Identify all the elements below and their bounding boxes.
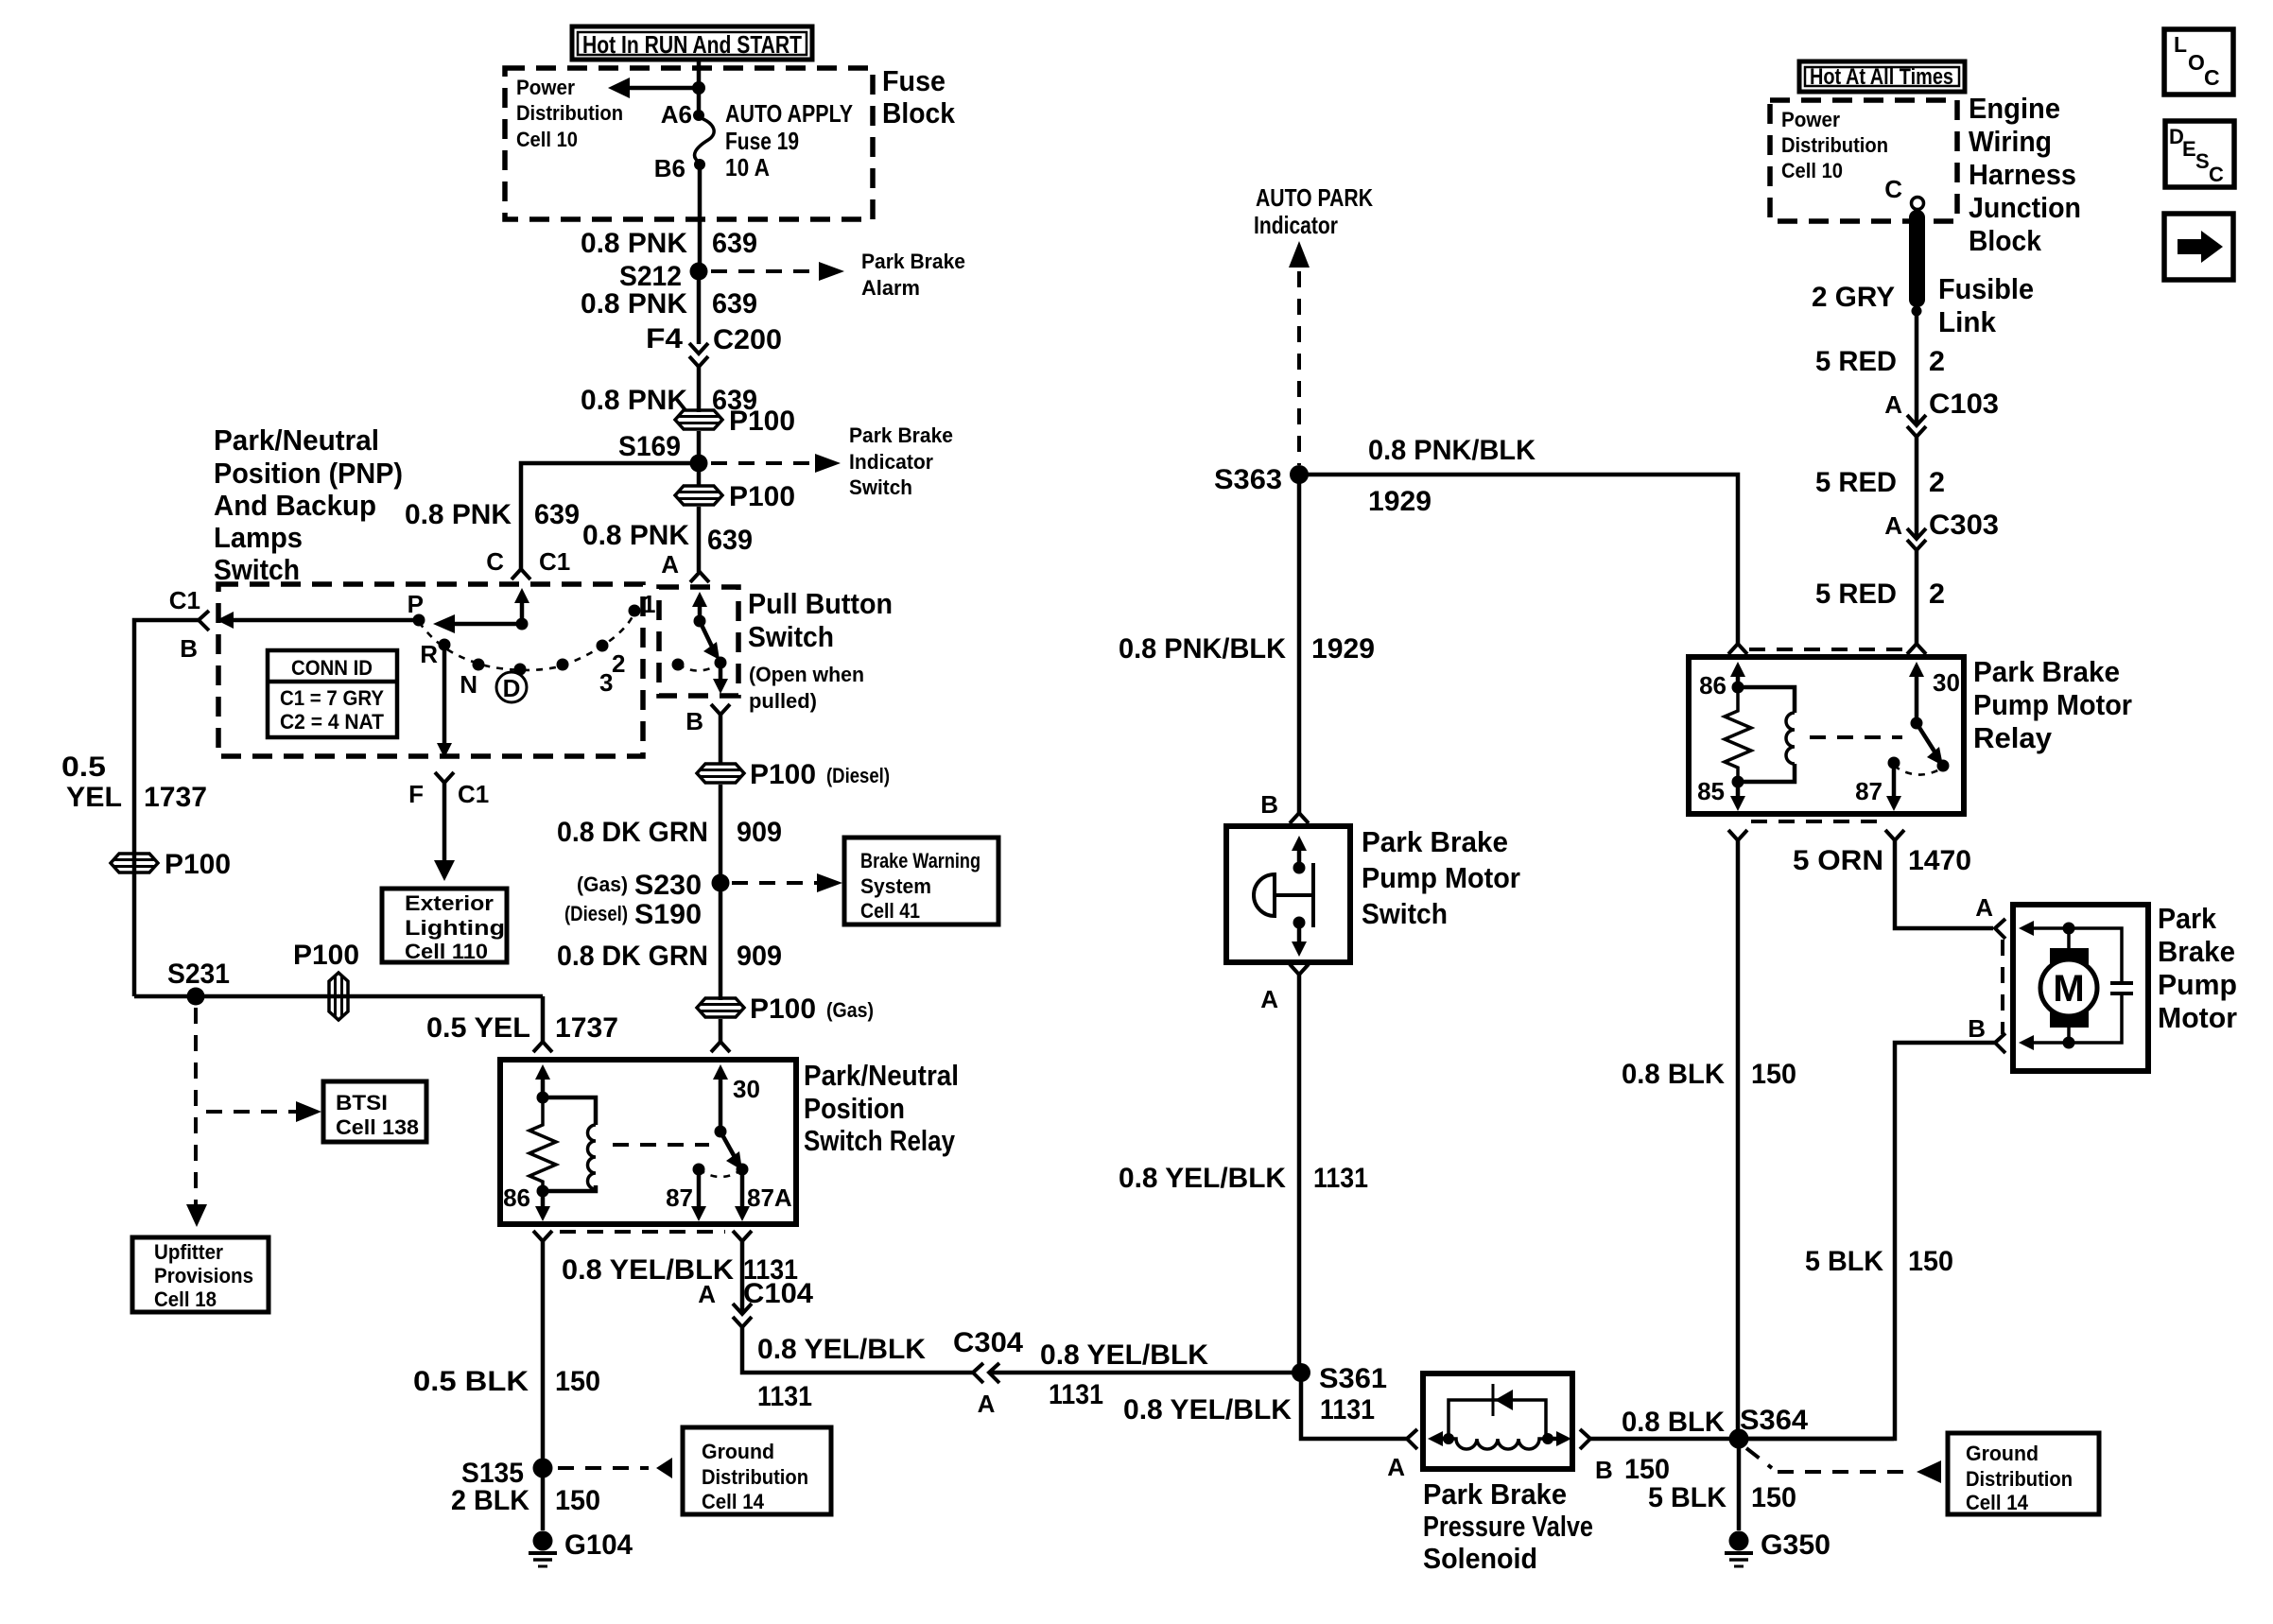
svg-text:C: C <box>486 547 504 576</box>
svg-text:150: 150 <box>1751 1482 1796 1513</box>
label 0.8 YEL/BLK 1131 right of C304 <box>1040 1339 1208 1410</box>
contact 2 <box>597 640 609 652</box>
svg-text:C1: C1 <box>458 780 489 808</box>
label 0.8 PNK 639 <box>581 228 757 259</box>
contact P <box>413 614 425 627</box>
pull button dashed arc <box>678 663 720 671</box>
svg-text:C: C <box>2204 65 2220 90</box>
pump switch plunger <box>1254 863 1313 927</box>
svg-text:C: C <box>1884 175 1902 203</box>
svg-text:5 RED: 5 RED <box>1815 579 1897 610</box>
svg-text:1929: 1929 <box>1311 633 1375 665</box>
relay coil <box>543 1097 596 1191</box>
svg-text:Pump Motor: Pump Motor <box>1973 688 2132 721</box>
relay coil top node right <box>1732 682 1744 694</box>
svg-text:C: C <box>2209 163 2224 186</box>
svg-text:0.8 YEL/BLK: 0.8 YEL/BLK <box>1040 1339 1208 1371</box>
fuse AUTO APPLY Fuse 19 10 A <box>693 99 853 181</box>
relay coil top node <box>537 1092 549 1104</box>
svg-text:C1: C1 <box>539 547 570 576</box>
park brake pump motor box <box>2013 905 2148 1071</box>
svg-text:0.8 PNK: 0.8 PNK <box>581 385 687 416</box>
svg-text:A: A <box>1975 893 1993 922</box>
svg-text:A6: A6 <box>661 100 692 129</box>
wire 150 relay to S135 <box>541 1241 546 1530</box>
pull button interior arrow <box>692 592 707 621</box>
pull button switch dashed box <box>659 587 738 696</box>
connector chevron relay 86 top <box>1728 644 1747 654</box>
dashed ref wire to park brake alarm <box>711 262 844 281</box>
svg-text:150: 150 <box>1908 1246 1953 1277</box>
svg-text:Link: Link <box>1938 305 1997 338</box>
svg-text:Cell 10: Cell 10 <box>1781 159 1843 182</box>
svg-text:Pressure Valve: Pressure Valve <box>1423 1510 1593 1543</box>
svg-text:Distribution: Distribution <box>516 101 623 125</box>
svg-text:S230: S230 <box>634 870 702 901</box>
relay resistor right <box>1725 687 1751 782</box>
svg-text:C2 = 4 NAT: C2 = 4 NAT <box>280 710 385 734</box>
svg-text:0.5: 0.5 <box>61 752 106 783</box>
svg-text:5 RED: 5 RED <box>1815 346 1897 377</box>
wire 1131 pump switch to S361 <box>1297 975 1302 1373</box>
svg-text:Distribution: Distribution <box>1966 1467 2073 1491</box>
svg-text:P: P <box>408 590 424 618</box>
wire pin B to P100 diesel <box>719 715 723 765</box>
solenoid diode bypass <box>1449 1384 1546 1439</box>
svg-text:A: A <box>1884 390 1902 419</box>
contact 1 <box>629 605 641 617</box>
node S135 <box>533 1459 553 1478</box>
relay coil bottom node right <box>1732 776 1744 788</box>
svg-text:1131: 1131 <box>1313 1163 1368 1194</box>
svg-text:Solenoid: Solenoid <box>1423 1542 1537 1575</box>
svg-text:2: 2 <box>1929 579 1945 610</box>
svg-text:System: System <box>860 874 931 898</box>
label 5 ORN 1470 <box>1793 845 1971 876</box>
node S361 <box>1292 1363 1310 1382</box>
node S212 <box>690 263 708 281</box>
svg-text:P100: P100 <box>750 993 816 1025</box>
svg-text:(Diesel): (Diesel) <box>564 902 628 925</box>
svg-text:AUTO PARK: AUTO PARK <box>1256 183 1373 212</box>
label 0.8 PNK/BLK 1929 <box>1119 633 1375 665</box>
svg-text:Park Brake: Park Brake <box>1423 1477 1567 1511</box>
svg-text:0.8 YEL/BLK: 0.8 YEL/BLK <box>757 1334 926 1365</box>
svg-text:R: R <box>420 640 438 668</box>
pin 87 interior arrow <box>691 1169 706 1221</box>
label 5 RED 2 <box>1815 346 1945 377</box>
motor interior B arrow <box>2019 1035 2069 1050</box>
svg-text:Wiring: Wiring <box>1969 125 2052 158</box>
svg-text:1131: 1131 <box>1320 1394 1375 1425</box>
svg-text:F4: F4 <box>646 323 683 354</box>
pull button exit arrow <box>713 663 728 694</box>
branch wire S169 to PNP pin C <box>521 463 699 569</box>
svg-text:0.5 BLK: 0.5 BLK <box>413 1366 529 1397</box>
svg-text:5 RED: 5 RED <box>1815 467 1897 498</box>
park brake pump motor label <box>2158 902 2237 1034</box>
pump switch bottom contact <box>1293 917 1306 929</box>
svg-text:N: N <box>460 670 477 699</box>
pin C interior arrow <box>514 588 529 624</box>
svg-text:Motor: Motor <box>2158 1001 2237 1034</box>
pin 30 interior arrow right relay <box>1909 662 1924 723</box>
svg-text:10 A: 10 A <box>725 153 770 181</box>
relay coil bottom node <box>537 1185 549 1198</box>
relay switch blade right <box>1917 723 1943 766</box>
relay actuation dashed link <box>613 1143 709 1147</box>
relay blade rest contact <box>1937 760 1950 772</box>
svg-text:0.8 PNK/BLK: 0.8 PNK/BLK <box>1368 435 1536 466</box>
node S169 <box>690 455 708 473</box>
label 0.5 BLK 150 <box>413 1366 600 1397</box>
wire 639 S212 to C200 <box>697 271 702 344</box>
svg-text:0.8 PNK: 0.8 PNK <box>582 520 689 551</box>
connector dashed tie below relay <box>560 1230 725 1234</box>
pin 87 interior arrow right relay <box>1886 763 1901 811</box>
svg-text:Provisions: Provisions <box>154 1264 253 1287</box>
svg-text:Engine: Engine <box>1969 92 2060 125</box>
svg-text:Brake: Brake <box>2158 935 2235 968</box>
svg-text:CONN ID: CONN ID <box>291 656 373 680</box>
pin 86 interior arrow <box>535 1191 550 1221</box>
wire 2 C303 to relay pin 30 <box>1915 550 1919 644</box>
wire 1929 S363 to junction block column <box>1299 475 1738 644</box>
svg-text:0.8 BLK: 0.8 BLK <box>1622 1059 1725 1090</box>
contact 87 <box>693 1164 705 1176</box>
svg-text:150: 150 <box>1751 1059 1796 1090</box>
connector C200 <box>689 343 708 367</box>
pull button blade <box>700 621 720 660</box>
label 5 RED 2 third <box>1815 579 1945 610</box>
label 0.8 YEL/BLK 1131 <box>1119 1163 1368 1194</box>
svg-text:Indicator: Indicator <box>1254 211 1338 239</box>
svg-text:A: A <box>698 1280 716 1308</box>
label 0.8 BLK 150 <box>1622 1059 1796 1090</box>
svg-text:C103: C103 <box>1929 389 1999 420</box>
label 0.5 YEL 1737 <box>61 752 207 813</box>
connector C304 <box>973 1363 999 1383</box>
label 5 BLK 150 <box>1805 1246 1953 1277</box>
svg-text:Pump: Pump <box>2158 968 2237 1001</box>
svg-text:Pump Motor: Pump Motor <box>1362 861 1520 894</box>
grommet P100 gas <box>697 993 874 1025</box>
svg-text:0.8 DK GRN: 0.8 DK GRN <box>557 941 708 972</box>
svg-text:2: 2 <box>1929 467 1945 498</box>
wire 1131 relay 87A to C104 <box>740 1241 745 1314</box>
svg-text:Alarm: Alarm <box>861 276 920 300</box>
PNP switch dashed box <box>218 584 643 756</box>
node at fuse feed <box>692 81 705 95</box>
svg-text:Junction: Junction <box>1969 191 2081 224</box>
svg-text:Switch: Switch <box>1362 897 1448 930</box>
svg-text:30: 30 <box>1933 668 1960 697</box>
svg-text:Position: Position <box>804 1092 905 1125</box>
label 0.8 PNK 639 right branch <box>582 520 753 556</box>
BTSI cell 138 box <box>323 1081 426 1142</box>
svg-text:E: E <box>2182 137 2196 161</box>
svg-text:0.8 PNK: 0.8 PNK <box>405 499 512 530</box>
svg-text:0.8 DK GRN: 0.8 DK GRN <box>557 817 708 848</box>
node S364 <box>1729 1429 1749 1449</box>
connector chevron pin B pull button <box>711 704 730 715</box>
svg-text:A: A <box>1387 1453 1405 1481</box>
svg-text:Pull Button: Pull Button <box>748 587 893 620</box>
svg-text:Block: Block <box>1969 224 2042 257</box>
connector dashed tie below right relay <box>1751 820 1883 823</box>
svg-text:S231: S231 <box>167 959 230 990</box>
grommet P100 inline <box>293 940 359 1020</box>
solenoid interior right arrow <box>1548 1431 1571 1446</box>
svg-text:YEL: YEL <box>66 782 122 813</box>
svg-text:Park Brake: Park Brake <box>849 423 953 447</box>
node S363 <box>1290 465 1309 484</box>
svg-text:B: B <box>1595 1456 1613 1484</box>
svg-text:Indicator: Indicator <box>849 450 933 474</box>
svg-text:639: 639 <box>712 288 757 320</box>
dashed ref from S231 down <box>194 1008 198 1208</box>
svg-text:Lighting: Lighting <box>405 916 505 940</box>
connector chevron pin B <box>199 611 209 631</box>
park brake pump motor relay box <box>1689 657 1964 814</box>
connector chevron below 87A <box>733 1231 752 1241</box>
grommet P100 <box>675 406 795 437</box>
svg-text:L: L <box>2174 32 2187 57</box>
svg-text:D: D <box>503 674 521 702</box>
CONN ID box <box>268 650 397 737</box>
connector chevron pump switch B <box>1290 813 1309 823</box>
svg-text:Cell 41: Cell 41 <box>860 899 920 923</box>
arrow to upfitter provisions <box>186 1204 207 1227</box>
hot at all times box <box>1799 61 1965 92</box>
wire 2 C103 to C303 <box>1915 437 1919 539</box>
power distribution cell 10 dashed box right <box>1770 100 1957 221</box>
svg-text:S190: S190 <box>634 899 702 930</box>
svg-text:C304: C304 <box>953 1327 1023 1358</box>
svg-text:2 GRY: 2 GRY <box>1812 282 1895 313</box>
label 0.5 YEL 1737 at relay <box>426 1012 618 1044</box>
upfitter provisions cell 18 box <box>132 1237 269 1312</box>
grommet P100 diesel <box>697 759 890 790</box>
svg-text:Distribution: Distribution <box>702 1465 808 1489</box>
connector chevron relay 30 top <box>1907 644 1926 654</box>
power distribution cell 10 label <box>516 76 623 151</box>
connector chevron relay pin 30 <box>711 1042 730 1052</box>
wire 1131 C104 to C304 <box>742 1327 973 1373</box>
dashed ref to BTSI <box>206 1101 321 1122</box>
svg-text:150: 150 <box>555 1366 600 1397</box>
label 5 RED 2 second <box>1815 467 1945 498</box>
wire 0.8 BLK solenoid B to S364 <box>1590 1437 1894 1442</box>
ground G104 <box>529 1529 633 1566</box>
relay resistor <box>529 1097 556 1191</box>
connector chevron below 87 <box>1885 830 1904 840</box>
label 0.8 DK GRN 909 above <box>557 817 782 848</box>
svg-text:86: 86 <box>503 1183 530 1212</box>
svg-text:S: S <box>2195 149 2210 173</box>
svg-text:Park/Neutral: Park/Neutral <box>214 423 379 457</box>
svg-text:Fuse 19: Fuse 19 <box>725 127 799 155</box>
wire from hot box into fuse block <box>697 60 702 112</box>
pull button lower contact <box>715 657 727 669</box>
connector C303 <box>1907 528 1926 550</box>
svg-text:Park Brake: Park Brake <box>861 250 965 273</box>
contact 3 <box>557 659 569 671</box>
svg-text:(Diesel): (Diesel) <box>826 764 890 787</box>
svg-text:C200: C200 <box>713 324 782 355</box>
svg-text:Cell 18: Cell 18 <box>154 1287 217 1311</box>
svg-text:And Backup: And Backup <box>214 489 376 522</box>
arrow to power distribution <box>608 78 699 98</box>
svg-text:0.8 BLK: 0.8 BLK <box>1622 1407 1725 1438</box>
selector dashed arc <box>419 613 634 670</box>
svg-text:Power: Power <box>1781 108 1840 131</box>
Hot In RUN And START box <box>572 26 812 60</box>
ground distribution cell 14 box left <box>683 1427 831 1514</box>
svg-text:5 BLK: 5 BLK <box>1805 1246 1883 1277</box>
svg-text:5 ORN: 5 ORN <box>1793 845 1883 876</box>
pull button switch label <box>748 587 893 653</box>
svg-text:1: 1 <box>642 590 655 618</box>
svg-text:Hot At All Times: Hot At All Times <box>1810 64 1953 90</box>
svg-text:Park Brake: Park Brake <box>1973 655 2120 688</box>
svg-text:S361: S361 <box>1319 1363 1387 1394</box>
wire P100 gas to relay pin 30 <box>719 1019 723 1042</box>
svg-text:P100: P100 <box>729 406 795 437</box>
svg-text:150: 150 <box>1624 1454 1670 1485</box>
svg-text:Switch: Switch <box>849 475 912 499</box>
wire S361 to solenoid A <box>1301 1373 1407 1439</box>
svg-text:909: 909 <box>737 941 782 972</box>
wire F to exterior lighting <box>434 783 455 881</box>
connector chevron below 86 <box>533 1231 552 1241</box>
forward arrow box <box>2164 214 2233 280</box>
svg-text:G350: G350 <box>1761 1529 1831 1561</box>
park brake pump motor switch box <box>1226 826 1350 962</box>
connector chevron solenoid B <box>1580 1429 1590 1449</box>
label 0.8 BLK 150 <box>1622 1407 1725 1485</box>
label 2 BLK 150 <box>451 1485 600 1516</box>
svg-text:1737: 1737 <box>555 1012 618 1044</box>
svg-text:P100: P100 <box>293 940 359 971</box>
power distribution cell 10 label right <box>1781 108 1888 182</box>
svg-text:(Gas): (Gas) <box>826 998 874 1022</box>
wire S231 horizontal <box>134 994 543 999</box>
svg-text:639: 639 <box>712 228 757 259</box>
svg-text:Park/Neutral: Park/Neutral <box>804 1059 959 1092</box>
svg-text:AUTO APPLY: AUTO APPLY <box>725 99 853 128</box>
dashed ref S364 to ground distribution <box>1746 1448 1941 1483</box>
svg-text:A: A <box>1884 511 1902 540</box>
switch common node <box>516 618 529 631</box>
pull button top contact <box>694 615 706 628</box>
svg-text:Distribution: Distribution <box>1781 133 1888 157</box>
svg-text:C1 = 7 GRY: C1 = 7 GRY <box>280 686 384 710</box>
svg-text:A: A <box>1260 985 1278 1013</box>
svg-text:Cell 10: Cell 10 <box>516 128 578 151</box>
contact dashed arc <box>699 1169 742 1177</box>
svg-text:Cell 14: Cell 14 <box>702 1490 765 1513</box>
svg-text:(Open when: (Open when <box>749 663 864 686</box>
switch arm to P contact <box>433 614 522 633</box>
svg-text:Ground: Ground <box>702 1440 774 1463</box>
connector chevron pin F <box>435 772 454 783</box>
label 5 BLK 150 lower <box>1648 1482 1796 1513</box>
svg-text:Position (PNP): Position (PNP) <box>214 457 403 490</box>
svg-text:1737: 1737 <box>144 782 207 813</box>
dashed ref to brake warning system <box>732 873 842 892</box>
svg-text:Upfitter: Upfitter <box>154 1240 223 1264</box>
park brake pump motor relay label <box>1973 655 2132 754</box>
svg-text:P100: P100 <box>729 481 795 512</box>
wire 5 ORN pin 87 to motor A <box>1895 840 1993 928</box>
svg-text:Fusible: Fusible <box>1938 272 2034 305</box>
connector dashed tie motor <box>2001 940 2004 1034</box>
connector chevron motor A <box>1995 919 2005 939</box>
label 0.8 YEL/BLK 1131 below relay <box>562 1254 798 1286</box>
svg-text:P100: P100 <box>165 849 231 880</box>
dashed ref to ground distribution <box>558 1458 672 1478</box>
svg-text:Park: Park <box>2158 902 2217 935</box>
svg-text:A: A <box>978 1390 996 1418</box>
wire 2 fusible link to C103 <box>1915 311 1919 425</box>
motor interior A arrow <box>2019 921 2069 936</box>
label 0.8 PNK 639 <box>581 288 757 320</box>
relay coil pin interior arrow <box>535 1064 550 1097</box>
wire P100 to pin A pull button <box>697 507 702 572</box>
svg-text:30: 30 <box>733 1075 760 1103</box>
wire 1131 C304 to S361 <box>989 1371 1301 1375</box>
relay pin 86 interior arrow <box>1730 662 1745 687</box>
contact 87 right relay <box>1888 757 1900 769</box>
svg-text:1470: 1470 <box>1908 845 1971 876</box>
fuse block label <box>882 64 956 130</box>
svg-text:0.8 PNK: 0.8 PNK <box>581 288 687 320</box>
open when pulled label <box>749 663 864 713</box>
connector chevron motor B <box>1995 1033 2005 1053</box>
pin B wire to left <box>134 620 199 996</box>
park neutral position switch label <box>214 423 403 586</box>
pin 87A interior arrow <box>735 1169 750 1221</box>
node S231 <box>187 988 205 1006</box>
park brake pump motor switch label <box>1362 825 1520 930</box>
svg-text:909: 909 <box>737 817 782 848</box>
label 0.8 YEL/BLK C304 <box>757 1327 1023 1365</box>
motor capacitor <box>2069 928 2133 1043</box>
label S361 1131 <box>1319 1363 1387 1425</box>
fuse block dashed box <box>505 68 873 219</box>
park neutral position switch relay label <box>804 1059 959 1157</box>
svg-text:Power: Power <box>516 76 575 99</box>
svg-text:1929: 1929 <box>1368 486 1431 517</box>
svg-text:639: 639 <box>534 499 580 530</box>
DESC box <box>2165 121 2234 187</box>
svg-text:87: 87 <box>666 1183 693 1212</box>
wire 5 BLK motor B to S364 <box>1739 1043 1995 1439</box>
relay switch blade <box>720 1132 742 1170</box>
svg-text:1131: 1131 <box>757 1381 812 1412</box>
relay coil right <box>1738 687 1795 782</box>
grommet P100 lower <box>675 481 795 512</box>
svg-text:87: 87 <box>1855 777 1883 805</box>
svg-text:Ground: Ground <box>1966 1442 2039 1465</box>
pin 85 interior arrow <box>1730 782 1745 811</box>
label Diesel S190 <box>564 899 702 930</box>
auto park indicator label <box>1254 183 1373 239</box>
brake warning system cell 41 box <box>844 838 998 924</box>
svg-text:B: B <box>180 634 198 663</box>
contact dashed arc right relay <box>1894 766 1943 775</box>
